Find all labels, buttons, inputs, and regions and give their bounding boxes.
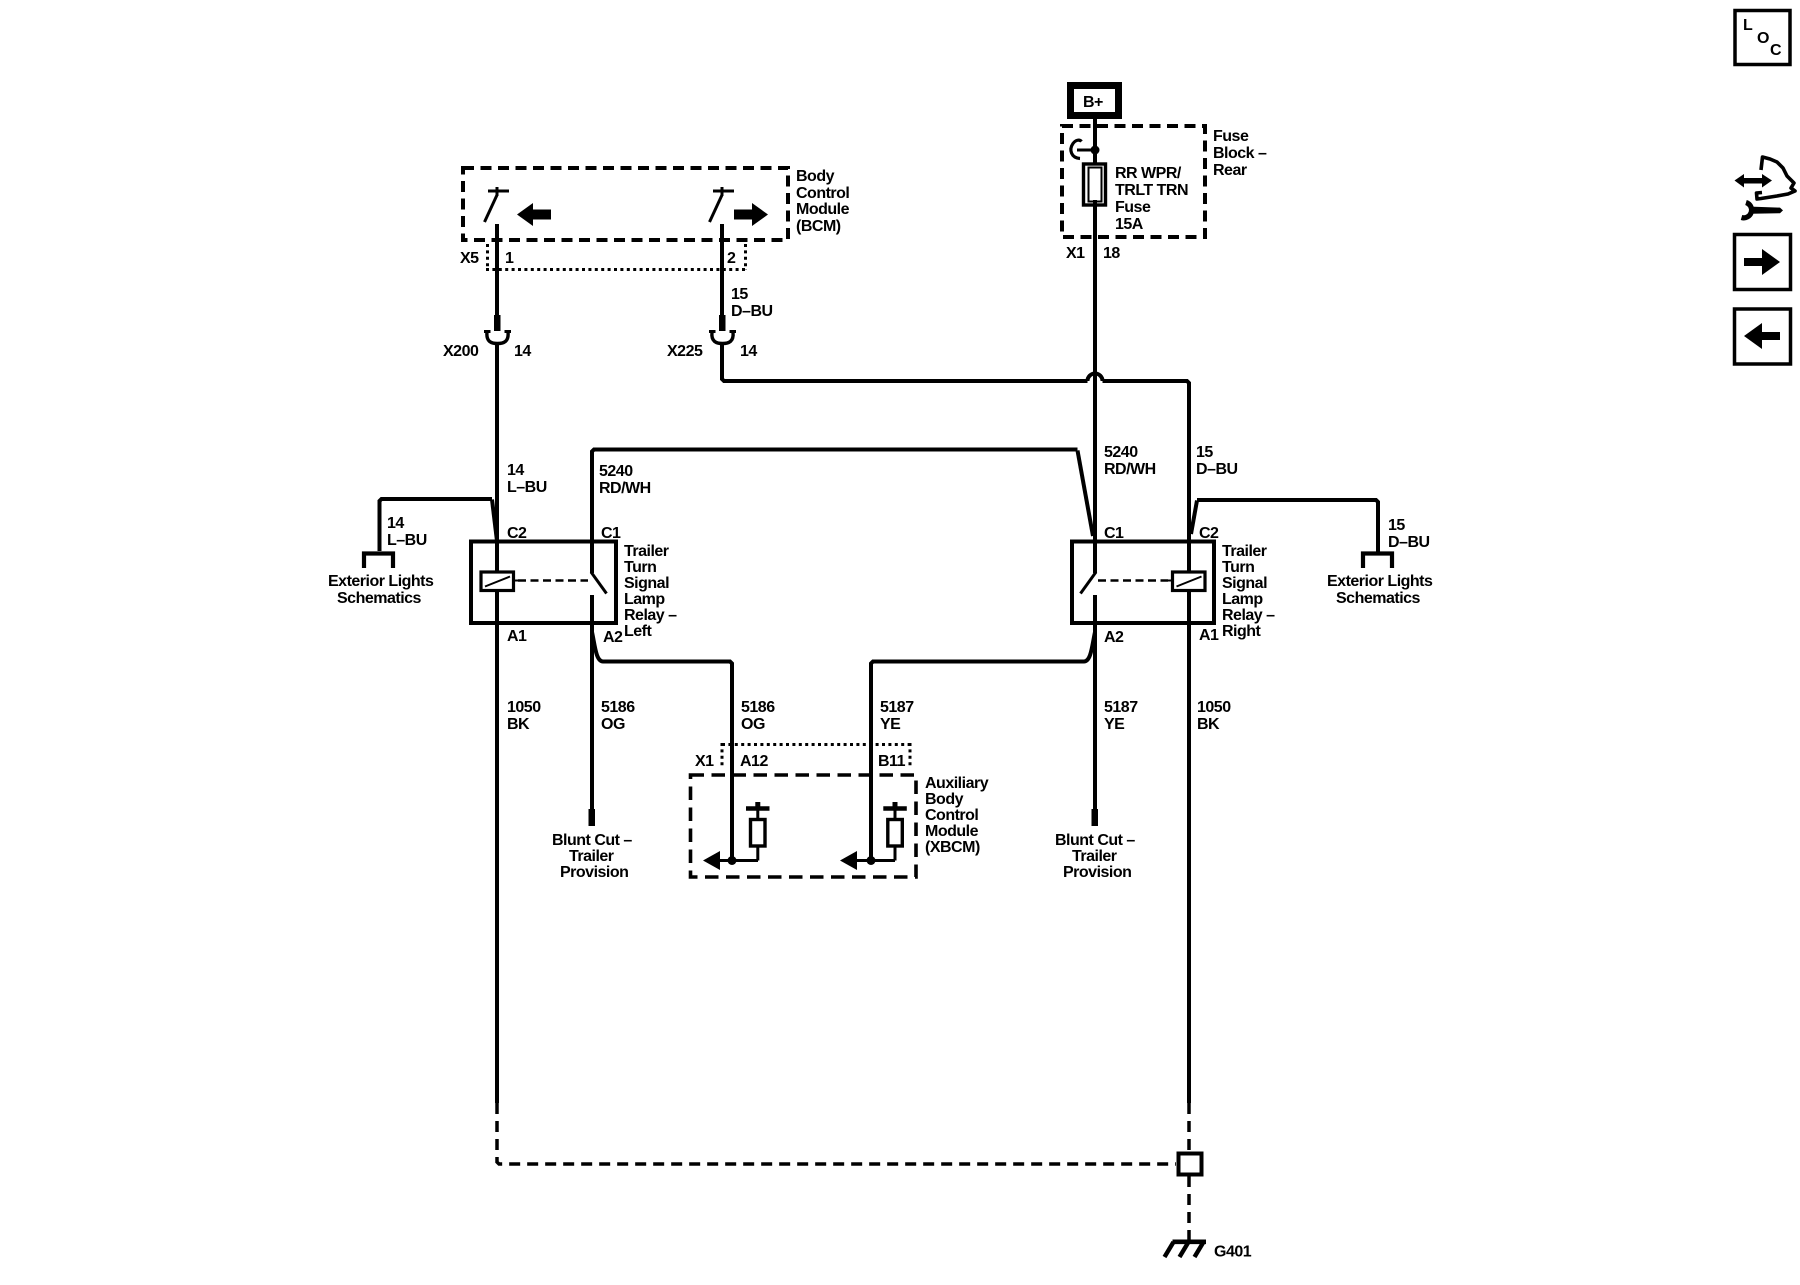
label: 14 L-BU (branch) bbox=[387, 515, 427, 549]
dashed ground run (left) bbox=[497, 1103, 1176, 1164]
svg-text:C2: C2 bbox=[507, 525, 527, 542]
off-page connector (left exterior lights) bbox=[364, 554, 393, 569]
svg-text:Fuse: Fuse bbox=[1115, 199, 1151, 216]
svg-text:2: 2 bbox=[727, 250, 736, 267]
svg-text:C1: C1 bbox=[601, 525, 621, 542]
Body Control Module (BCM) dashed box bbox=[463, 168, 788, 240]
svg-text:Schematics: Schematics bbox=[337, 590, 422, 607]
XBCM driver circuit B11: arrow, junction, resistor bbox=[840, 802, 907, 870]
svg-text:1050: 1050 bbox=[1197, 699, 1231, 716]
wire BCM pin1 down bbox=[495, 224, 499, 316]
labels X200 / 14 bbox=[443, 343, 531, 360]
label: Blunt Cut - Trailer Provision (right) bbox=[1055, 832, 1135, 881]
label: fuse name bbox=[1115, 165, 1188, 233]
svg-text:Turn: Turn bbox=[624, 559, 656, 576]
branch wire to right Exterior Lights bbox=[1197, 500, 1378, 552]
svg-text:Body: Body bbox=[925, 791, 964, 808]
svg-text:Auxiliary: Auxiliary bbox=[925, 775, 989, 792]
svg-text:18: 18 bbox=[1103, 245, 1120, 262]
svg-text:Exterior Lights: Exterior Lights bbox=[1327, 573, 1433, 590]
svg-text:Relay –: Relay – bbox=[1222, 607, 1275, 624]
left relay coil bbox=[481, 542, 518, 624]
label: 5186 OG (A12 wire) bbox=[741, 699, 775, 733]
label: 5186 OG (blunt cut left) bbox=[601, 699, 635, 733]
off-page connector (right exterior lights) bbox=[1363, 554, 1392, 569]
svg-text:Blunt Cut –: Blunt Cut – bbox=[552, 832, 632, 849]
splice diagonal into C2 bbox=[492, 500, 497, 542]
label: Trailer Turn Signal Lamp Relay - Right bbox=[1222, 543, 1275, 640]
splice diagonal into right C1 bbox=[1078, 451, 1094, 537]
svg-text:A1: A1 bbox=[1199, 627, 1219, 644]
labels X5, pins 1 and 2 bbox=[460, 250, 736, 267]
relay K left: Trailer Turn Signal Lamp Relay - Left bbox=[471, 542, 616, 624]
label: 15 D-BU (pin2 wire) bbox=[731, 286, 773, 320]
svg-text:Left: Left bbox=[624, 623, 653, 640]
svg-text:14: 14 bbox=[387, 515, 404, 532]
circuit breaker hook symbol bbox=[1071, 140, 1100, 158]
svg-text:5240: 5240 bbox=[599, 463, 633, 480]
nav arrow box (forward) bbox=[1735, 235, 1791, 290]
svg-text:5186: 5186 bbox=[741, 699, 775, 716]
svg-text:X5: X5 bbox=[460, 250, 479, 267]
svg-text:BK: BK bbox=[507, 716, 530, 733]
fuse RR WPR/TRLT TRN 15A bbox=[1084, 150, 1106, 206]
svg-text:5240: 5240 bbox=[1104, 444, 1138, 461]
Auxiliary Body Control Module (XBCM) dashed box bbox=[691, 775, 917, 877]
svg-text:5186: 5186 bbox=[601, 699, 635, 716]
svg-text:D–BU: D–BU bbox=[1196, 461, 1238, 478]
svg-text:RD/WH: RD/WH bbox=[1104, 461, 1156, 478]
right relay link (dashed) bbox=[1098, 579, 1168, 582]
right turn arrow bbox=[734, 203, 768, 226]
nav arrow box (back) bbox=[1735, 309, 1791, 364]
wire: right relay A1 down (1050 BK) bbox=[1187, 623, 1191, 1103]
svg-text:TRLT TRN: TRLT TRN bbox=[1115, 182, 1188, 199]
splice S cross box bbox=[1179, 1154, 1202, 1175]
wire: continue to right C2 corner and down bbox=[1103, 381, 1190, 543]
right relay coil bbox=[1168, 542, 1205, 624]
svg-text:L–BU: L–BU bbox=[507, 479, 547, 496]
svg-text:X1: X1 bbox=[1066, 245, 1085, 262]
left turn arrow bbox=[517, 203, 551, 226]
label: Auxiliary Body Control Module (XBCM) bbox=[925, 775, 989, 856]
svg-text:A2: A2 bbox=[603, 629, 623, 646]
svg-text:X225: X225 bbox=[667, 343, 703, 360]
svg-text:Control: Control bbox=[796, 185, 849, 202]
svg-text:BK: BK bbox=[1197, 716, 1220, 733]
blunt cut stub (right) bbox=[1092, 809, 1099, 826]
svg-text:Signal: Signal bbox=[624, 575, 669, 592]
svg-text:Provision: Provision bbox=[1063, 864, 1131, 881]
svg-text:Turn: Turn bbox=[1222, 559, 1254, 576]
label: Exterior Lights Schematics (left) bbox=[328, 573, 434, 607]
svg-text:Module: Module bbox=[796, 201, 850, 218]
svg-text:X1: X1 bbox=[695, 753, 714, 770]
wire: 5240 RD/WH horizontal to left relay C1 bbox=[592, 450, 1078, 544]
wire: right relay A2 down to blunt cut bbox=[1093, 623, 1097, 810]
svg-text:A12: A12 bbox=[740, 753, 768, 770]
svg-text:Signal: Signal bbox=[1222, 575, 1267, 592]
label: Exterior Lights Schematics (right) bbox=[1327, 573, 1433, 607]
splice diagonal into right C2 bbox=[1191, 501, 1197, 535]
svg-text:15: 15 bbox=[1196, 444, 1213, 461]
label: 1050 BK (left) bbox=[507, 699, 541, 733]
left relay pin labels bbox=[507, 525, 623, 646]
svg-text:5187: 5187 bbox=[880, 699, 914, 716]
svg-text:(XBCM): (XBCM) bbox=[925, 839, 980, 856]
svg-text:C1: C1 bbox=[1104, 525, 1124, 542]
wire: left relay A1 down (1050 BK) bbox=[495, 623, 499, 1103]
svg-text:15: 15 bbox=[1388, 517, 1405, 534]
connector X5 dotted strip bbox=[486, 244, 747, 270]
svg-text:RR WPR/: RR WPR/ bbox=[1115, 165, 1182, 182]
wire BCM pin2 down bbox=[720, 224, 724, 316]
ground G401 symbol bbox=[1165, 1242, 1207, 1257]
BCM right-turn switch bbox=[710, 187, 735, 222]
inline connector X200 bbox=[484, 315, 511, 344]
svg-text:Right: Right bbox=[1222, 623, 1262, 640]
svg-text:Block –: Block – bbox=[1213, 145, 1267, 162]
svg-text:Provision: Provision bbox=[560, 864, 628, 881]
svg-text:Trailer: Trailer bbox=[569, 848, 614, 865]
branch wire A2 to XBCM B11 bbox=[871, 632, 1095, 861]
svg-text:Trailer: Trailer bbox=[1072, 848, 1117, 865]
svg-text:D–BU: D–BU bbox=[1388, 534, 1430, 551]
svg-text:O: O bbox=[1757, 30, 1769, 47]
label: 5187 YE (B11 wire) bbox=[880, 699, 914, 733]
svg-text:L: L bbox=[1743, 17, 1753, 34]
branch wire A2 to XBCM A12 bbox=[592, 632, 732, 861]
svg-text:Relay –: Relay – bbox=[624, 607, 677, 624]
svg-text:Trailer: Trailer bbox=[1222, 543, 1267, 560]
labels X225 / 14 bbox=[667, 343, 757, 360]
svg-text:A1: A1 bbox=[507, 628, 527, 645]
svg-text:Module: Module bbox=[925, 823, 979, 840]
svg-text:C2: C2 bbox=[1199, 525, 1219, 542]
svg-text:YE: YE bbox=[880, 716, 901, 733]
svg-text:C: C bbox=[1770, 42, 1782, 59]
svg-text:(BCM): (BCM) bbox=[796, 218, 841, 235]
label: 14 L-BU (left wire) bbox=[507, 462, 547, 496]
LOC legend box bbox=[1735, 11, 1790, 65]
label: 5240 RD/WH (right) bbox=[1104, 444, 1156, 478]
wire hop bbox=[1088, 374, 1103, 381]
svg-text:G401: G401 bbox=[1214, 1244, 1252, 1261]
label: Body Control Module (BCM) bbox=[796, 168, 850, 235]
right relay switch bbox=[1081, 542, 1097, 624]
svg-text:B+: B+ bbox=[1083, 94, 1103, 111]
label: 1050 BK (right) bbox=[1197, 699, 1231, 733]
BCM left-turn switch bbox=[485, 187, 510, 222]
svg-text:Trailer: Trailer bbox=[624, 543, 669, 560]
svg-text:14: 14 bbox=[514, 343, 531, 360]
label: Fuse Block - Rear bbox=[1213, 128, 1267, 179]
svg-text:YE: YE bbox=[1104, 716, 1125, 733]
svg-text:15: 15 bbox=[731, 286, 748, 303]
svg-text:OG: OG bbox=[601, 716, 625, 733]
wire: left relay A2 down to blunt cut bbox=[590, 623, 594, 810]
left relay link (dashed) bbox=[518, 579, 588, 582]
svg-text:Lamp: Lamp bbox=[1222, 591, 1263, 608]
svg-text:1050: 1050 bbox=[507, 699, 541, 716]
svg-text:Exterior Lights: Exterior Lights bbox=[328, 573, 434, 590]
svg-text:D–BU: D–BU bbox=[731, 303, 773, 320]
vehicle-with-wrench icon bbox=[1735, 157, 1796, 218]
label: 5240 RD/WH (left) bbox=[599, 463, 651, 497]
blunt cut stub (left) bbox=[589, 809, 596, 826]
wire B+ to fuse block bbox=[1093, 119, 1097, 163]
label: Blunt Cut - Trailer Provision (left) bbox=[552, 832, 632, 881]
svg-text:5187: 5187 bbox=[1104, 699, 1138, 716]
B+ battery feed box bbox=[1071, 86, 1119, 116]
label: 15 D-BU (right) bbox=[1196, 444, 1238, 478]
svg-text:Fuse: Fuse bbox=[1213, 128, 1249, 145]
label: Trailer Turn Signal Lamp Relay - Left bbox=[624, 543, 677, 640]
svg-text:Body: Body bbox=[796, 168, 835, 185]
connector X1 dotted strip (XBCM) bbox=[722, 743, 911, 768]
dashed wire splice to ground bbox=[1187, 1176, 1191, 1242]
svg-text:Control: Control bbox=[925, 807, 978, 824]
label: 15 D-BU (right branch) bbox=[1388, 517, 1430, 551]
labels X1, A12, B11 bbox=[695, 753, 906, 770]
label: 5187 YE (blunt cut right) bbox=[1104, 699, 1138, 733]
inline connector X225 bbox=[709, 315, 736, 344]
svg-text:B11: B11 bbox=[878, 753, 906, 770]
svg-text:Blunt Cut –: Blunt Cut – bbox=[1055, 832, 1135, 849]
right relay pin labels bbox=[1104, 525, 1219, 646]
wire: X200 down to left relay C2 bbox=[495, 343, 499, 543]
svg-text:A2: A2 bbox=[1104, 629, 1124, 646]
svg-text:L–BU: L–BU bbox=[387, 532, 427, 549]
svg-text:14: 14 bbox=[507, 462, 524, 479]
wire: X225 down then right (15 D-BU) with hop over fuse wire bbox=[722, 343, 1088, 381]
left relay switch bbox=[591, 542, 607, 624]
svg-text:Schematics: Schematics bbox=[1336, 590, 1421, 607]
branch wire to left Exterior Lights bbox=[380, 499, 493, 551]
wire: fuse output down to right relay C1 bbox=[1093, 206, 1097, 543]
fuse block rear dashed box bbox=[1062, 126, 1205, 237]
svg-text:14: 14 bbox=[740, 343, 757, 360]
svg-text:X200: X200 bbox=[443, 343, 479, 360]
svg-text:OG: OG bbox=[741, 716, 765, 733]
relay K right: Trailer Turn Signal Lamp Relay - Right bbox=[1072, 542, 1214, 624]
svg-text:Lamp: Lamp bbox=[624, 591, 665, 608]
svg-text:1: 1 bbox=[505, 250, 514, 267]
XBCM driver circuit A12: arrow, junction, resistor bbox=[703, 802, 770, 870]
connector X1 pin 18 labels bbox=[1066, 245, 1120, 262]
svg-text:15A: 15A bbox=[1115, 216, 1144, 233]
svg-text:Rear: Rear bbox=[1213, 162, 1247, 179]
dashed ground run (right) bbox=[1187, 1103, 1191, 1152]
svg-text:RD/WH: RD/WH bbox=[599, 480, 651, 497]
